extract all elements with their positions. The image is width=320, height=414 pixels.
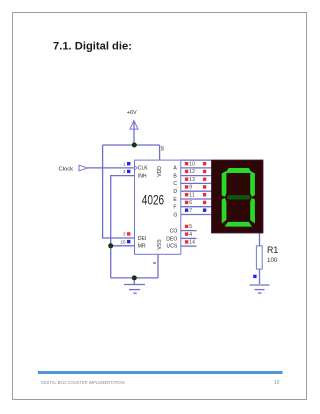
svg-text:DEO: DEO [166,236,177,242]
svg-text:A: A [173,166,177,172]
svg-text:13: 13 [189,177,195,183]
svg-text:UCS: UCS [167,243,178,249]
svg-text:DEI: DEI [138,236,147,242]
svg-text:D: D [173,189,177,195]
svg-text:F: F [173,205,176,211]
svg-text:6: 6 [189,200,192,206]
svg-text:11: 11 [189,192,194,198]
svg-text:15: 15 [120,239,126,244]
svg-text:2: 2 [123,169,126,174]
svg-text:C: C [173,181,177,187]
svg-text:3: 3 [123,232,126,237]
svg-text:CO: CO [170,229,178,235]
svg-text:Clock: Clock [59,166,74,172]
svg-text:16: 16 [160,146,165,152]
svg-text:7: 7 [189,208,192,214]
svg-text:4026: 4026 [142,193,164,208]
svg-text:+6V: +6V [127,110,137,116]
svg-text:INH: INH [138,173,147,179]
svg-text:7.1. Digital die:: 7.1. Digital die: [53,41,132,53]
svg-text:E: E [173,197,177,203]
svg-text:1: 1 [123,161,126,166]
svg-text:MR: MR [138,244,146,250]
svg-text:R1: R1 [267,245,278,255]
svg-text:12: 12 [189,169,195,175]
svg-text:8: 8 [152,262,157,265]
svg-text:4: 4 [189,232,192,238]
svg-text:B: B [173,173,177,179]
svg-text:G: G [173,212,177,218]
svg-text:5: 5 [189,224,192,230]
svg-text:10: 10 [189,161,195,167]
svg-text:VDD: VDD [157,166,163,177]
svg-text:9: 9 [189,185,192,191]
svg-text:DIGITAL BCD COUNTER IMPLEMENTA: DIGITAL BCD COUNTER IMPLEMENTATION [41,380,125,385]
svg-text:100: 100 [267,257,278,264]
svg-text:10: 10 [274,380,280,386]
svg-text:VSS: VSS [157,239,163,250]
svg-text:CLK: CLK [138,166,149,172]
svg-text:14: 14 [189,240,195,246]
